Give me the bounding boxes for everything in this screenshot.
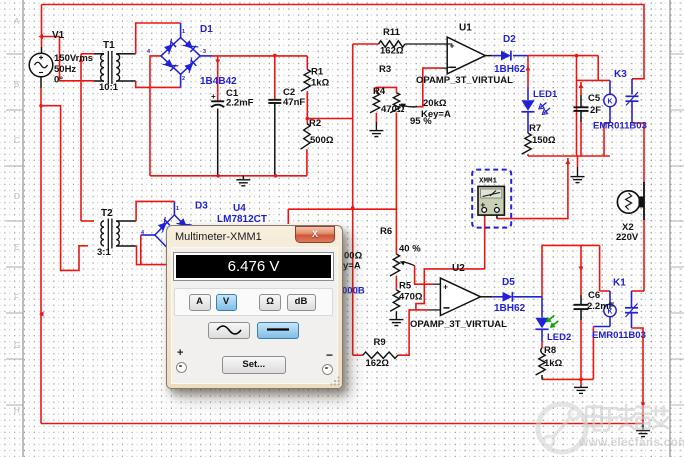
svg-text:www.elecfans.com: www.elecfans.com [578,435,684,449]
